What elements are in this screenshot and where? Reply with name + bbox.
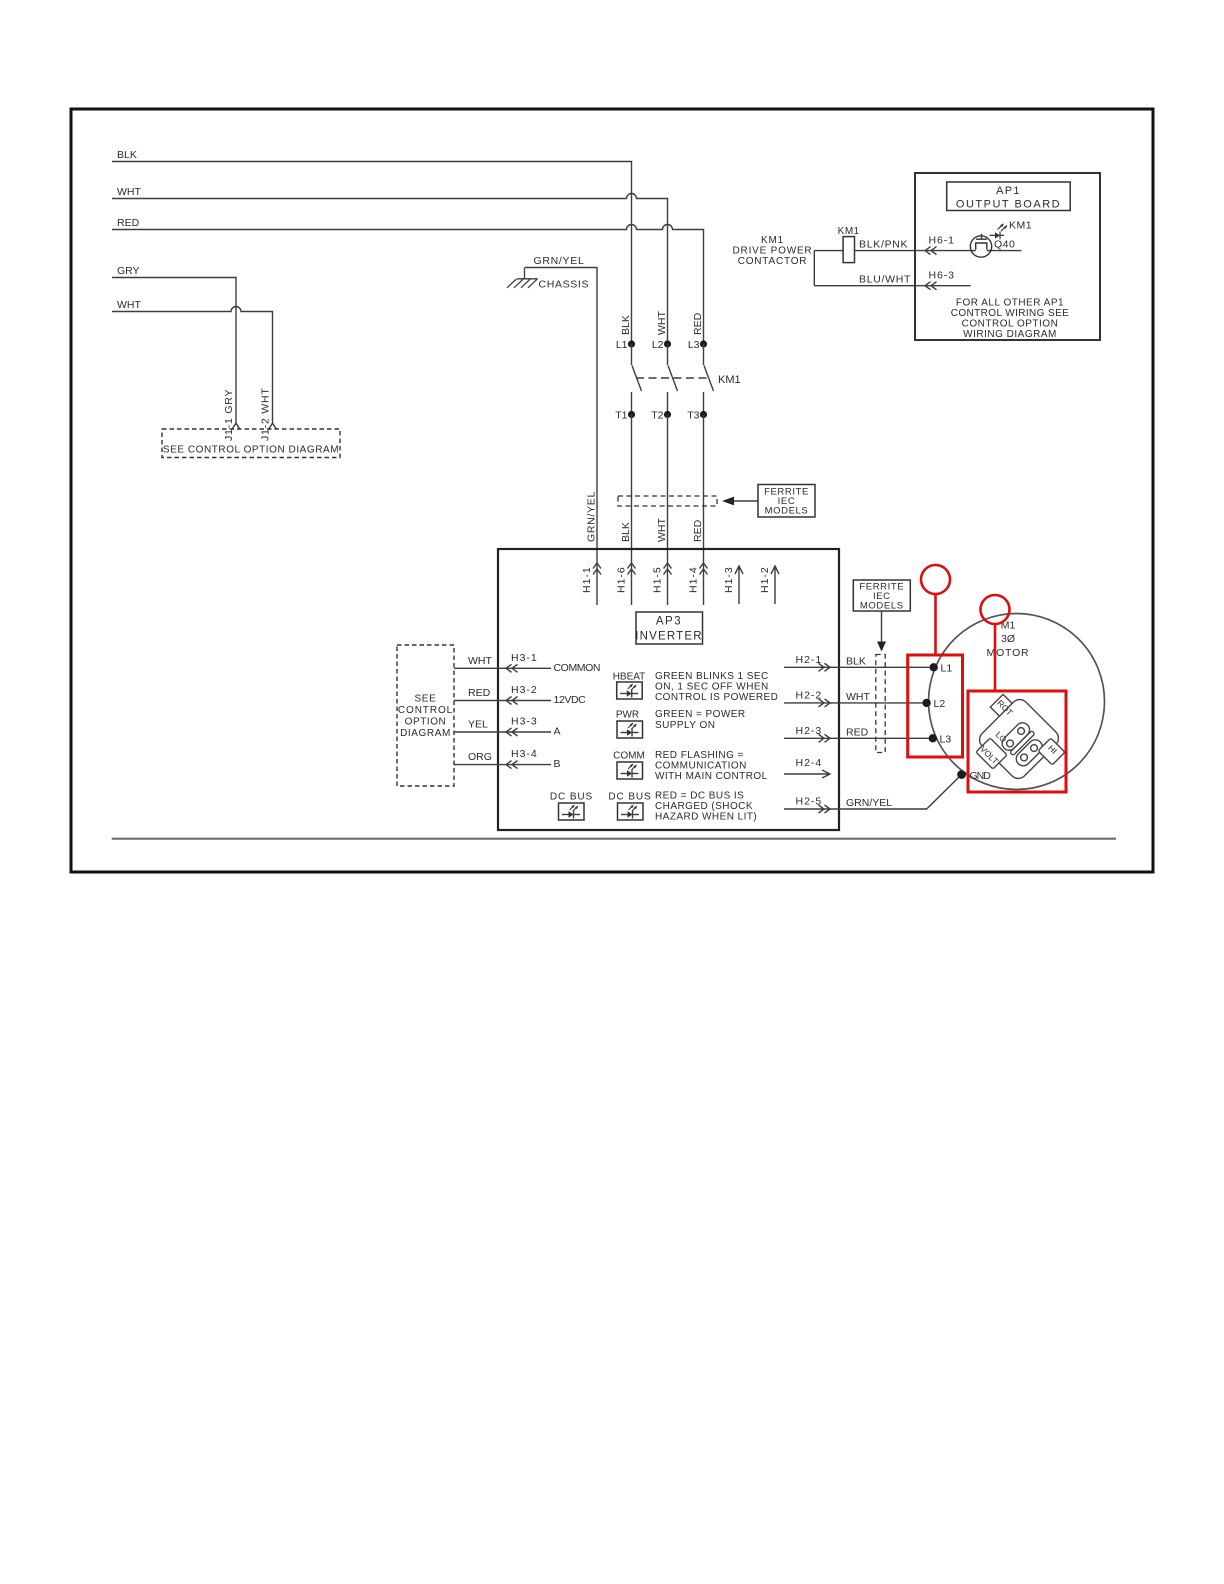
svg-text:KM1: KM1 <box>1009 220 1032 232</box>
wire WHT to motor L2 <box>839 702 927 704</box>
svg-text:H2-4: H2-4 <box>796 757 823 769</box>
LED HBEAT indicator <box>617 682 643 699</box>
dashed box SEE CONTROL OPTION DIAGRAM (left) <box>397 645 454 786</box>
red leader line 2 <box>994 624 997 691</box>
svg-text:HAZARD WHEN LIT): HAZARD WHEN LIT) <box>655 812 757 823</box>
svg-text:H1-1: H1-1 <box>581 566 593 593</box>
svg-text:H2-1: H2-1 <box>796 654 823 666</box>
pin H3-1 connector chevrons (left) <box>506 664 518 672</box>
wire RED (T3 down to H1 header) <box>703 415 705 564</box>
node L1 junction dot <box>628 340 635 347</box>
svg-text:GREEN = POWER: GREEN = POWER <box>655 709 746 720</box>
contactor KM1 pole 1 (blade L1-T1) <box>632 344 642 415</box>
svg-text:COMM: COMM <box>613 751 645 762</box>
node L3 junction dot <box>700 340 707 347</box>
svg-text:WITH MAIN CONTROL: WITH MAIN CONTROL <box>655 771 768 782</box>
svg-text:WHT: WHT <box>656 518 668 542</box>
pin H2-3 connector chevrons (right) <box>819 734 831 742</box>
pin H3-3 connector chevrons (left) <box>506 728 518 736</box>
transistor Q40 (circle symbol) <box>970 236 991 257</box>
contactor KM1 linkage (dashed) <box>636 377 710 379</box>
motor M1 circle <box>929 614 1105 790</box>
svg-text:A: A <box>554 726 561 738</box>
svg-text:DIAGRAM: DIAGRAM <box>400 728 451 739</box>
svg-text:DC BUS: DC BUS <box>550 792 593 803</box>
svg-text:CHARGED (SHOCK: CHARGED (SHOCK <box>655 801 753 812</box>
svg-text:BLK: BLK <box>620 522 632 542</box>
svg-text:RED: RED <box>117 217 140 229</box>
svg-text:YEL: YEL <box>468 719 488 731</box>
svg-text:RED FLASHING =: RED FLASHING = <box>655 750 744 761</box>
svg-text:CONTROL: CONTROL <box>398 705 453 716</box>
svg-text:BLK: BLK <box>846 655 866 667</box>
pin H6-1 connector chevrons (left) <box>925 247 937 255</box>
svg-text:COMMUNICATION: COMMUNICATION <box>655 761 747 772</box>
svg-text:GREEN BLINKS 1 SEC: GREEN BLINKS 1 SEC <box>655 671 769 682</box>
svg-text:GRN/YEL: GRN/YEL <box>586 491 598 542</box>
LED DC BUS indicator (left) <box>559 803 585 820</box>
motor terminal L2 dot <box>922 699 930 707</box>
svg-text:WHT: WHT <box>846 691 870 703</box>
svg-text:INVERTER: INVERTER <box>635 631 703 643</box>
dashed box SEE CONTROL OPTION DIAGRAM (top-left) <box>162 429 340 458</box>
svg-text:PWR: PWR <box>616 710 639 721</box>
opto LED symbol (Q40 gate) <box>990 232 1005 240</box>
svg-text:KM1: KM1 <box>718 374 741 386</box>
wire BLK (T1 down to H1 header) <box>631 415 633 564</box>
node T2 junction dot <box>664 411 671 418</box>
svg-text:ORG: ORG <box>468 751 492 763</box>
wire WHT (hops BLK, turns down) <box>112 194 668 341</box>
svg-text:WHT: WHT <box>468 655 492 667</box>
wire Q40 output <box>992 250 1022 252</box>
svg-text:H1-2: H1-2 <box>759 566 771 593</box>
AP1 title box <box>947 182 1070 211</box>
connector arrow J1-1 (caret up at box edge) <box>232 423 240 429</box>
contactor KM1 pole 2 (blade L2-T2) <box>668 344 678 415</box>
svg-text:WIRING DIAGRAM: WIRING DIAGRAM <box>963 329 1057 340</box>
ferrite bead dashed outline (on motor wires) <box>876 655 885 753</box>
pin H2-3 wire inside box <box>784 737 839 739</box>
svg-text:L3: L3 <box>940 734 952 746</box>
svg-text:H2-5: H2-5 <box>796 796 823 808</box>
ferrite 2 callout box <box>853 580 910 611</box>
svg-text:COMMON: COMMON <box>554 662 601 674</box>
red callout circle 1 <box>921 565 950 594</box>
pin H2-4 arrow (right, unused) <box>784 770 830 778</box>
svg-text:H1-3: H1-3 <box>723 566 735 593</box>
svg-text:H2-2: H2-2 <box>796 689 823 701</box>
wire WHT (T2 down to H1 header) <box>667 415 669 564</box>
svg-text:H3-4: H3-4 <box>511 748 538 760</box>
svg-text:AP3: AP3 <box>656 616 682 628</box>
wire H3-3 (YEL) from control option box <box>454 731 551 733</box>
voltage/rotation selector switch detail <box>976 694 1065 782</box>
svg-text:H1-4: H1-4 <box>688 566 700 593</box>
wire H3-2 (RED) from control option box <box>454 700 551 702</box>
ferrite bead dashed outline (on BLK/WHT/RED wires) <box>618 496 717 506</box>
svg-text:CONTROL WIRING SEE: CONTROL WIRING SEE <box>951 308 1070 319</box>
LED DC BUS indicator (right) <box>618 803 644 820</box>
svg-text:H2-3: H2-3 <box>796 725 823 737</box>
wire WHT2 (hops GRY, turns down to J1-2) <box>112 307 273 424</box>
svg-text:AP1: AP1 <box>996 185 1021 197</box>
bottom horizontal rail line <box>112 838 1116 840</box>
wire GRN/YEL (chassis to H1-1) <box>525 268 597 564</box>
svg-text:KM1: KM1 <box>761 235 784 246</box>
wire RED (hops BLK and WHT, turns down) <box>112 225 704 341</box>
wire BLK to motor L1 <box>839 666 934 668</box>
motor terminal GND dot <box>957 770 966 779</box>
connector arrow J1-2 (caret up at box edge) <box>269 423 277 429</box>
svg-text:OPTION: OPTION <box>405 717 447 728</box>
pin H1-6 connector chevrons (up) <box>628 563 636 575</box>
pin H1-2 arrow (up, unused) <box>771 566 779 604</box>
node T3 junction dot <box>700 411 707 418</box>
svg-text:Q40: Q40 <box>994 239 1015 251</box>
svg-text:H6-3: H6-3 <box>929 270 955 282</box>
svg-text:WHT: WHT <box>117 186 141 198</box>
coil KM1 rectangle <box>843 237 854 263</box>
svg-text:RED: RED <box>468 687 491 699</box>
svg-text:H1-6: H1-6 <box>616 566 628 593</box>
pin H2-5 wire inside box <box>784 808 839 810</box>
svg-text:H3-2: H3-2 <box>511 684 538 696</box>
red leader line 1 <box>934 594 937 655</box>
svg-text:MOTOR: MOTOR <box>987 647 1030 659</box>
svg-text:SEE: SEE <box>414 694 436 705</box>
svg-text:GND: GND <box>970 770 992 782</box>
svg-text:MODELS: MODELS <box>860 601 904 612</box>
wire left return (coil bracket) <box>813 251 815 286</box>
svg-text:GRN/YEL: GRN/YEL <box>534 255 585 267</box>
svg-text:3Ø: 3Ø <box>1001 633 1015 645</box>
svg-text:HBEAT: HBEAT <box>613 672 646 683</box>
svg-text:MODELS: MODELS <box>765 506 809 517</box>
svg-text:RED: RED <box>692 312 704 335</box>
motor terminal L3 dot <box>929 734 937 742</box>
svg-text:RED: RED <box>692 519 704 542</box>
pin H3-2 connector chevrons (left) <box>506 697 518 705</box>
svg-text:CHASSIS: CHASSIS <box>539 279 590 291</box>
motor terminal L1 dot <box>930 663 938 671</box>
node T1 junction dot <box>628 411 635 418</box>
svg-text:GRY: GRY <box>117 265 140 277</box>
svg-text:J1-2 WHT: J1-2 WHT <box>260 387 272 441</box>
svg-text:SUPPLY ON: SUPPLY ON <box>655 720 715 731</box>
svg-text:J1-1 GRY: J1-1 GRY <box>223 389 235 441</box>
wire BLK (top supply, turns down at x=631.5) <box>112 162 632 341</box>
node L2 junction dot <box>664 340 671 347</box>
svg-text:T2: T2 <box>651 410 663 422</box>
pin H1-1 connector chevrons (up) <box>593 563 601 575</box>
wire GRY (turns down to J1-1) <box>112 278 236 424</box>
svg-text:OUTPUT BOARD: OUTPUT BOARD <box>956 199 1061 211</box>
pin H1-5 connector chevrons (up) <box>664 563 672 575</box>
svg-text:H3-3: H3-3 <box>511 716 538 728</box>
svg-text:KM1: KM1 <box>838 226 860 237</box>
wire GRN/YEL to motor GND <box>839 775 962 810</box>
svg-text:BLK: BLK <box>620 315 632 335</box>
red callout circle 2 <box>981 595 1010 624</box>
svg-text:DC BUS: DC BUS <box>608 792 651 803</box>
pin H2-5 connector chevrons (right) <box>819 805 831 813</box>
ferrite 2 arrow (points down) <box>881 611 883 642</box>
svg-text:L1: L1 <box>616 339 628 351</box>
svg-text:H6-1: H6-1 <box>929 235 955 247</box>
chassis ground symbol <box>507 268 538 288</box>
diagram outer border frame <box>71 109 1153 872</box>
svg-text:CONTACTOR: CONTACTOR <box>738 256 808 267</box>
wire BLK/PNK (coil to H6-1) <box>814 250 970 252</box>
LED COMM indicator <box>617 762 643 779</box>
pin H3-4 connector chevrons (left) <box>506 761 518 769</box>
svg-text:SEE CONTROL OPTION DIAGRAM: SEE CONTROL OPTION DIAGRAM <box>163 445 339 456</box>
svg-text:H1-5: H1-5 <box>652 566 664 593</box>
svg-text:B: B <box>554 758 561 770</box>
wire BLU/WHT (to H6-3) <box>814 285 970 287</box>
red highlight rectangle 1 (motor terminals) <box>908 655 963 757</box>
svg-text:WHT: WHT <box>656 311 668 335</box>
LED PWR indicator <box>617 721 643 738</box>
wire RED to motor L3 <box>839 737 933 739</box>
pin H1-4 connector chevrons (up) <box>700 563 708 575</box>
svg-text:WHT: WHT <box>117 299 141 311</box>
svg-text:L3: L3 <box>688 339 700 351</box>
svg-text:T3: T3 <box>687 410 699 422</box>
svg-text:BLK: BLK <box>117 149 137 161</box>
svg-text:L1: L1 <box>941 663 953 675</box>
ferrite 1 arrow (points left) <box>722 497 734 506</box>
svg-text:FOR ALL OTHER AP1: FOR ALL OTHER AP1 <box>956 298 1064 309</box>
svg-text:DRIVE POWER: DRIVE POWER <box>733 246 813 257</box>
svg-text:CONTROL IS POWERED: CONTROL IS POWERED <box>655 692 778 703</box>
svg-text:RED = DC BUS IS: RED = DC BUS IS <box>655 791 744 802</box>
pin H6-3 connector chevrons (left) <box>925 282 937 290</box>
AP1 output board box <box>915 173 1100 340</box>
pin H2-1 wire inside box <box>784 666 839 668</box>
svg-text:RED: RED <box>846 726 869 738</box>
svg-text:BLU/WHT: BLU/WHT <box>859 274 911 286</box>
pin H2-2 connector chevrons (right) <box>819 699 831 707</box>
svg-text:H3-1: H3-1 <box>511 652 538 664</box>
wire H3-1 (WHT) from control option box <box>454 667 551 669</box>
svg-text:CONTROL OPTION: CONTROL OPTION <box>962 319 1059 330</box>
pin H1-3 arrow (up, unused) <box>735 566 743 604</box>
svg-text:12VDC: 12VDC <box>554 694 587 706</box>
ferrite 1 callout box <box>758 485 815 518</box>
svg-text:L2: L2 <box>652 339 664 351</box>
AP3 inverter box <box>498 549 839 830</box>
pin H2-2 wire inside box <box>784 702 839 704</box>
pin H2-1 connector chevrons (right) <box>819 663 831 671</box>
wire H3-4 (ORG) from control option box <box>454 764 551 766</box>
svg-text:L2: L2 <box>934 698 946 710</box>
svg-text:BLK/PNK: BLK/PNK <box>859 239 908 251</box>
svg-text:GRN/YEL: GRN/YEL <box>846 797 892 809</box>
contactor KM1 pole 3 (blade L3-T3) <box>704 344 714 415</box>
red highlight rectangle 2 (voltage selector) <box>968 691 1066 792</box>
AP3 inverter title box <box>636 612 703 644</box>
svg-text:ON, 1 SEC OFF WHEN: ON, 1 SEC OFF WHEN <box>655 682 769 693</box>
svg-text:T1: T1 <box>615 410 627 422</box>
